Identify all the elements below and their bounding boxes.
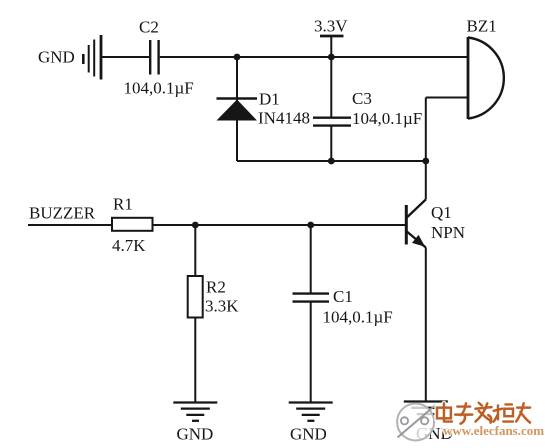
wire top rail left segment xyxy=(101,56,149,58)
transistor Q1 xyxy=(406,200,426,248)
svg-text:GND: GND xyxy=(177,425,214,444)
wire emitter vertical xyxy=(425,248,427,403)
svg-text:R2: R2 xyxy=(206,278,226,297)
svg-text:104,0.1µF: 104,0.1µF xyxy=(323,308,393,327)
power 3.3V symbol xyxy=(320,36,344,57)
svg-text:IN4148: IN4148 xyxy=(258,109,310,128)
svg-text:www.elecfans.com: www.elecfans.com xyxy=(443,423,544,438)
wire C3 top stub xyxy=(330,57,332,117)
svg-text:BZ1: BZ1 xyxy=(467,17,497,36)
svg-text:BUZZER: BUZZER xyxy=(29,204,96,223)
resistor R1 xyxy=(112,218,153,231)
ground (under Q1 emitter) xyxy=(404,402,448,421)
wire R2 top stub xyxy=(194,225,196,276)
svg-text:GND: GND xyxy=(38,48,75,67)
node junction top rail / 3.3V / C3 xyxy=(328,54,335,61)
wire R2 bottom stub xyxy=(194,318,196,403)
wire C3 bottom stub xyxy=(330,126,332,161)
node junction base rail / R2 xyxy=(192,222,199,229)
wire buzzer bottom terminal xyxy=(426,97,468,99)
wire C1 top stub xyxy=(310,225,312,293)
svg-text:R1: R1 xyxy=(113,195,133,214)
ground (under C1) xyxy=(289,403,333,421)
capacitor C2 xyxy=(150,40,158,75)
svg-text:3.3V: 3.3V xyxy=(314,17,348,36)
wire top rail right segment xyxy=(160,56,468,58)
diode D1 xyxy=(217,99,258,121)
svg-text:C2: C2 xyxy=(139,18,159,37)
svg-text:104,0.1µF: 104,0.1µF xyxy=(352,109,422,128)
svg-text:Q1: Q1 xyxy=(431,203,452,222)
svg-text:4.7K: 4.7K xyxy=(112,236,146,255)
watermark text 电子发烧友 white halo underlay xyxy=(437,403,530,424)
ground (under R2) xyxy=(173,403,217,421)
watermark text 电子发烧友 (drawn strokes) xyxy=(437,403,530,424)
ground symbol GND (top-left battery-style bars) xyxy=(83,35,101,80)
svg-text:D1: D1 xyxy=(259,90,280,109)
buzzer BZ1 xyxy=(468,37,504,119)
wire base rail left of R1 xyxy=(28,224,112,226)
capacitor C3 xyxy=(313,118,351,126)
wire sub-rail (D1/C3 bottom to collector net) xyxy=(237,160,426,162)
wire collector vertical xyxy=(425,98,427,200)
node junction sub-rail / collector line xyxy=(422,158,429,165)
resistor R2 xyxy=(188,276,203,318)
wire C1 bottom stub xyxy=(310,302,312,402)
svg-text:NPN: NPN xyxy=(431,223,465,242)
node junction top rail / D1 xyxy=(234,54,241,61)
svg-text:C3: C3 xyxy=(352,89,372,108)
svg-text:104,0.1µF: 104,0.1µF xyxy=(124,79,194,98)
node junction base rail / C1 xyxy=(307,222,314,229)
wire D1 cathode vertical xyxy=(236,57,238,161)
watermark logo (elecfans compass) xyxy=(397,404,435,441)
capacitor C1 xyxy=(293,294,330,302)
svg-text:3.3K: 3.3K xyxy=(205,297,239,316)
node junction sub-rail / C3 xyxy=(328,158,335,165)
wire base rail right of R1 xyxy=(153,224,406,226)
svg-text:GND: GND xyxy=(290,425,327,444)
svg-text:C1: C1 xyxy=(333,287,353,306)
